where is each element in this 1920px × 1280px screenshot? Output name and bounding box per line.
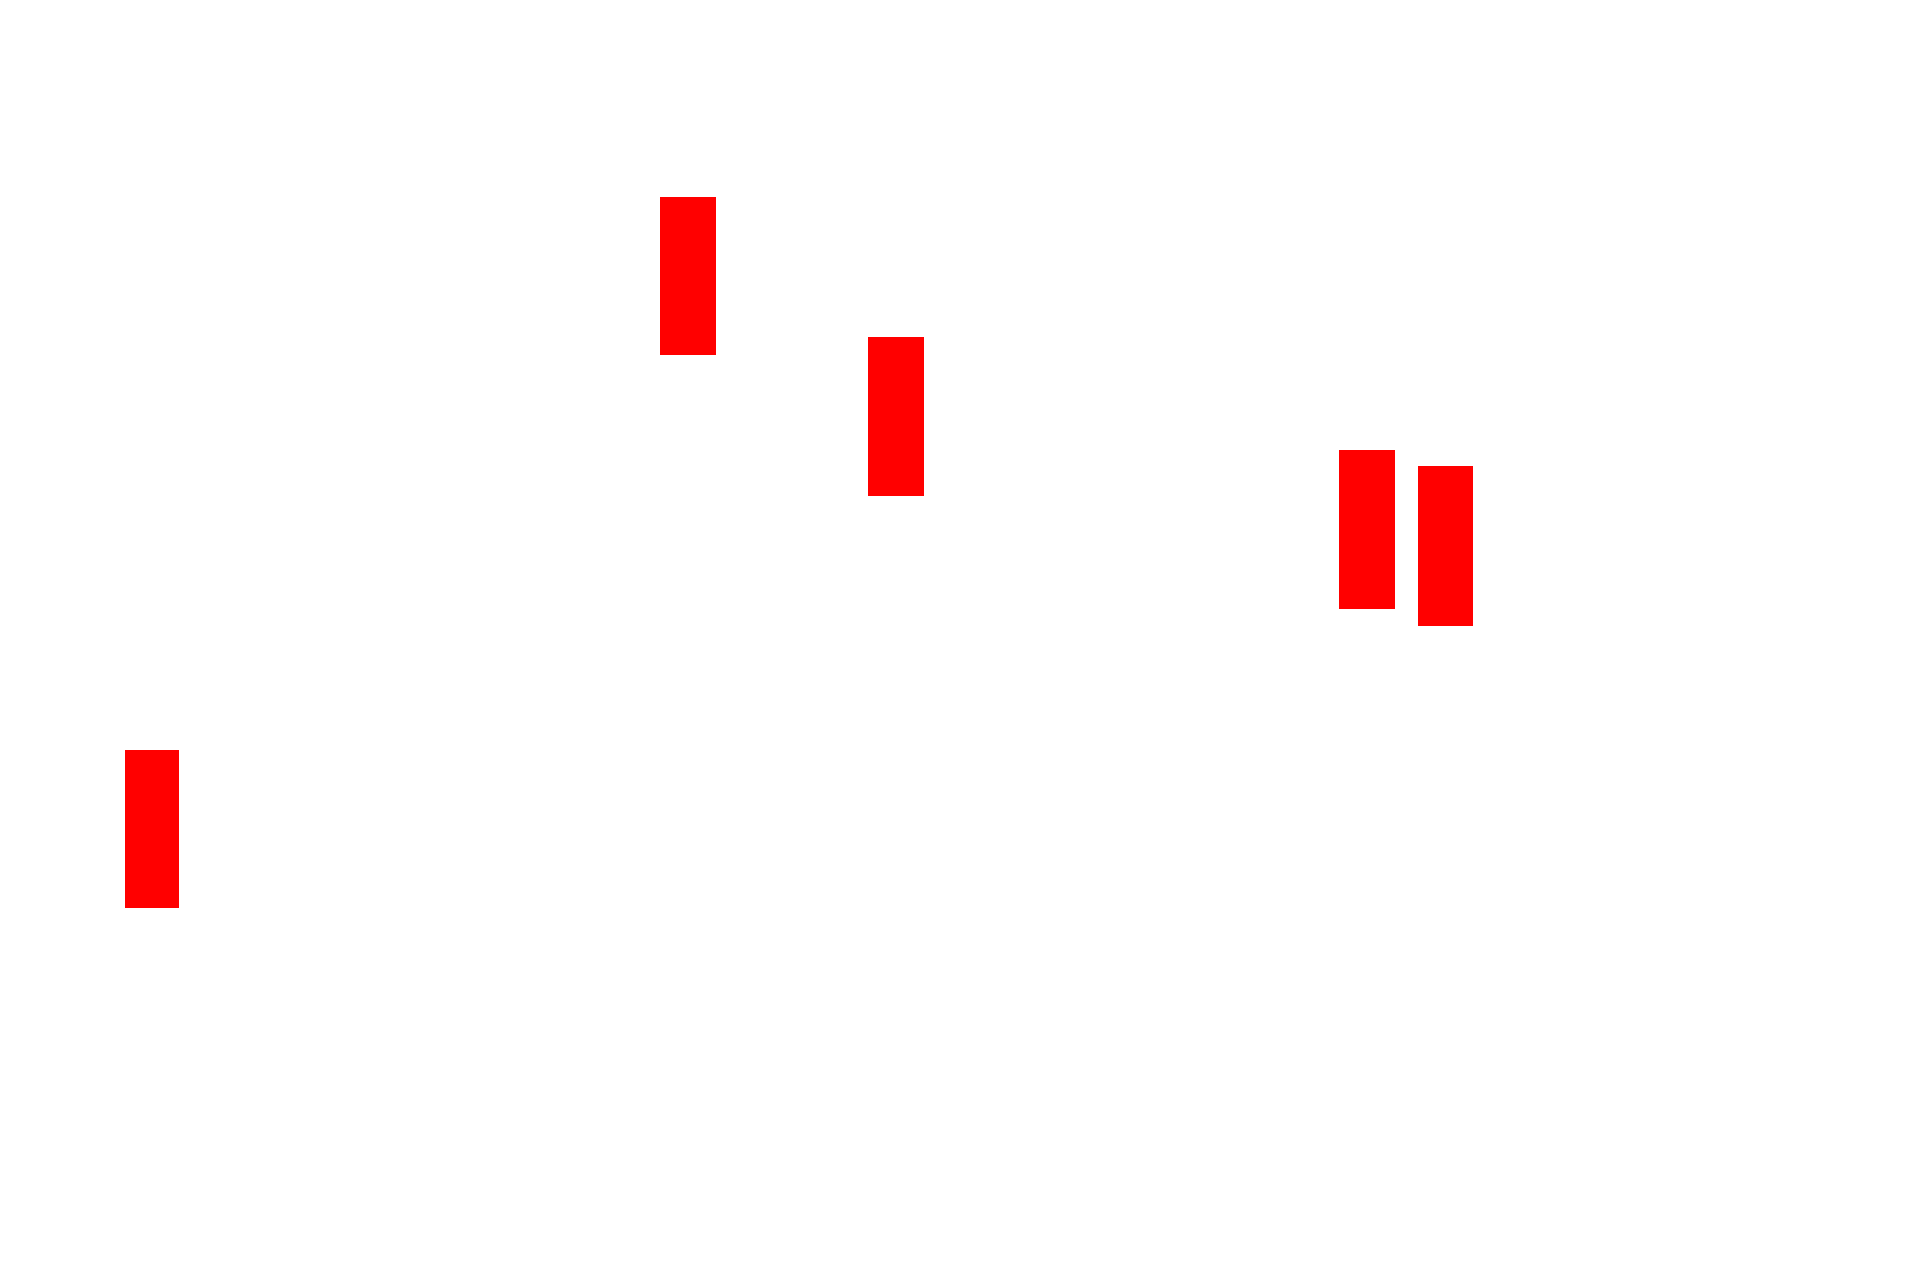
- bearish candle 5: [125, 750, 179, 908]
- bearish candle 4: [1418, 466, 1473, 626]
- bearish candle 2: [868, 337, 924, 496]
- bearish candle 3: [1339, 450, 1395, 609]
- bearish candle 1: [660, 197, 716, 355]
